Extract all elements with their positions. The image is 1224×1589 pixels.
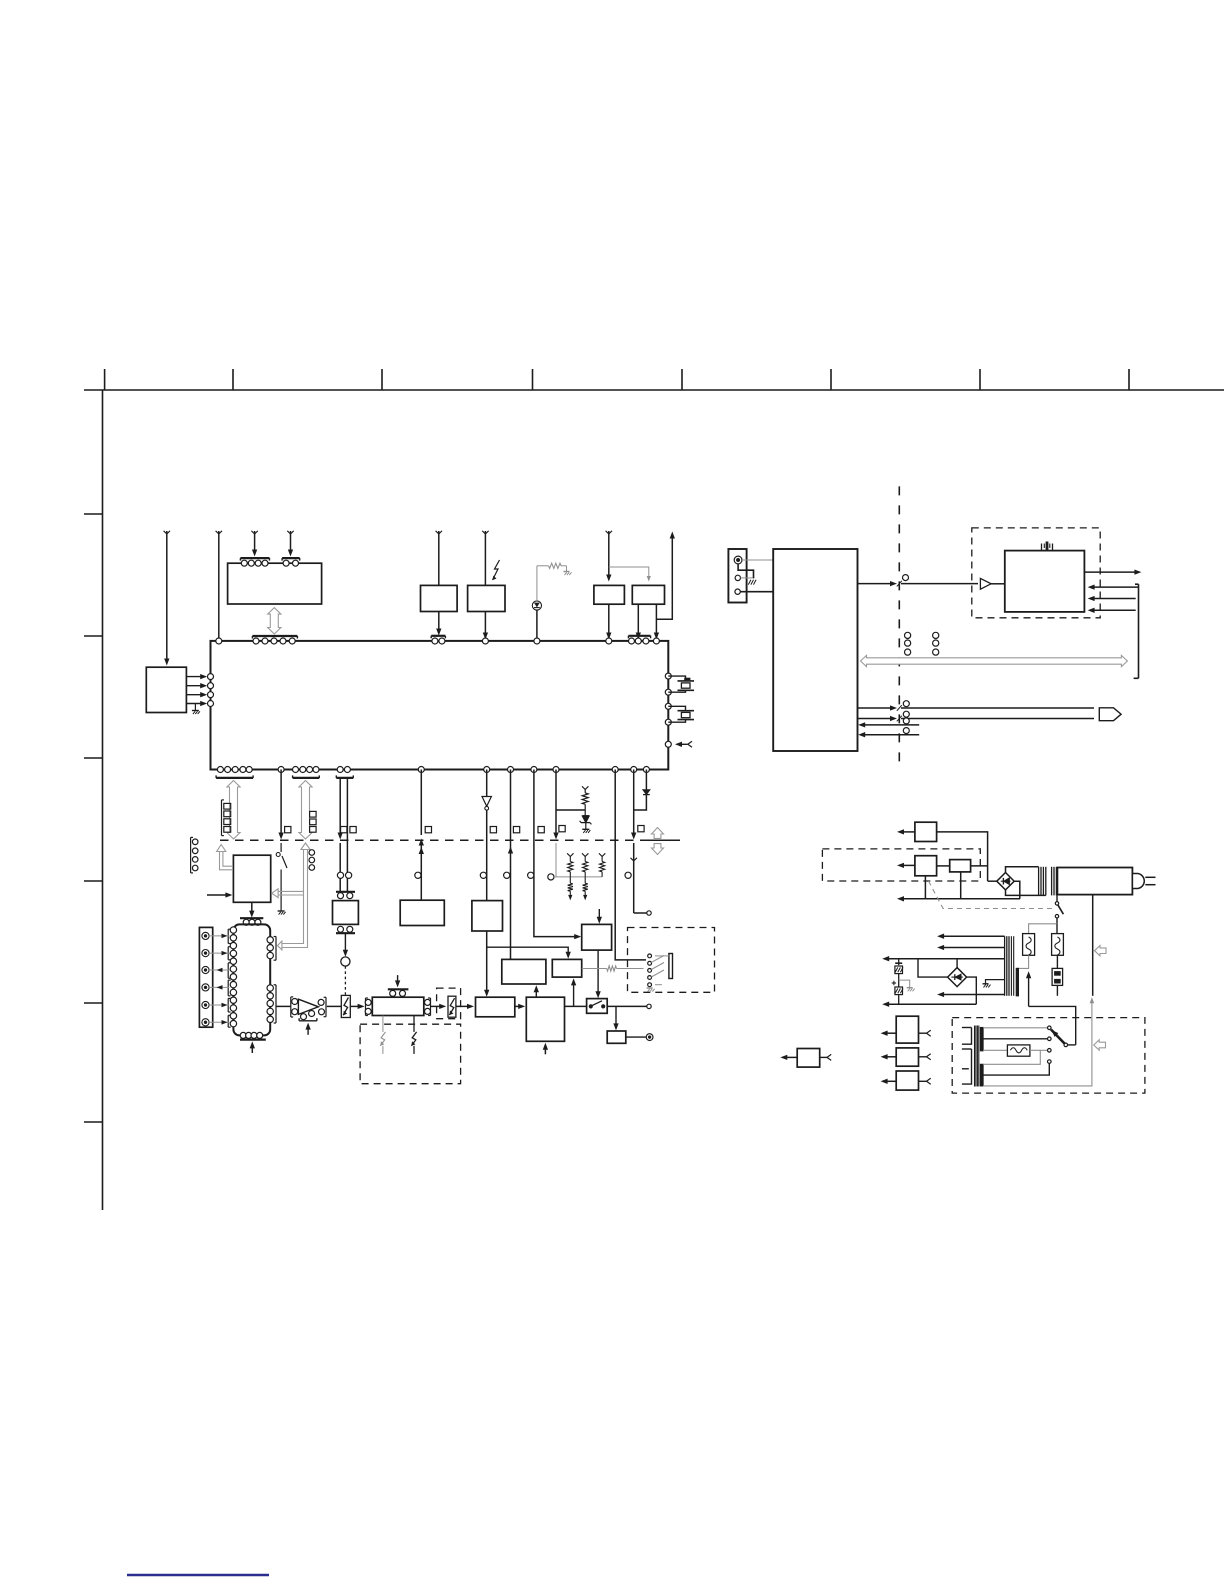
squares stack of 3 bbox=[310, 811, 317, 817]
gray wire box J to jack with resistor bbox=[582, 968, 607, 970]
wire pin x535 to box K bbox=[531, 767, 537, 773]
power switch S1 bbox=[1056, 895, 1058, 902]
resistor ladder network bbox=[567, 853, 573, 856]
arrow below L up into bottom bbox=[544, 1046, 546, 1055]
boundary open arrow up bbox=[652, 828, 664, 839]
bridge right vertex to return rail bbox=[1014, 881, 1020, 899]
block box W2 bbox=[797, 1049, 820, 1068]
gray bus arrow into box E right bbox=[278, 890, 303, 892]
pin circles under bar 1 bbox=[241, 560, 247, 566]
switch box M bbox=[587, 999, 608, 1014]
wire LED to U1 pin bbox=[536, 610, 538, 638]
connector pins hatched 6 bbox=[202, 932, 209, 939]
connector bar under reset box bbox=[431, 635, 445, 637]
audio in wires to tuner bbox=[861, 724, 919, 726]
block box V bbox=[896, 1071, 918, 1090]
BR2 left vertex wire bbox=[918, 959, 948, 977]
filter box S bbox=[950, 860, 971, 872]
T2 secondary bar bbox=[1016, 968, 1018, 995]
data bus open arrow to boundary bbox=[299, 781, 312, 840]
feedback pin circles bbox=[301, 1014, 307, 1020]
crystal X2 bbox=[668, 706, 685, 710]
key bus open arrow to boundary bbox=[227, 781, 240, 840]
ground at sensor box bbox=[194, 704, 196, 711]
gray branch to fuse A bbox=[1029, 924, 1057, 934]
pin circles U1 left edge bbox=[208, 674, 214, 680]
AC plug bbox=[1132, 874, 1144, 889]
connector bar below IC2 bbox=[240, 1038, 266, 1040]
ground LED branch bbox=[564, 571, 570, 573]
dashed ribbon box D2 bbox=[437, 988, 461, 1019]
wires R-S-rect bbox=[937, 865, 950, 867]
cap 2 with plus bbox=[892, 982, 896, 984]
wire M to line out bbox=[607, 1005, 647, 1007]
wire LED to resistor bbox=[536, 566, 538, 601]
wires sensor box to U1 left pins bbox=[186, 676, 204, 678]
wire into reset box bbox=[436, 531, 442, 534]
long gray bus double arrow bbox=[861, 655, 1128, 666]
connector bar above U1 right pin group bbox=[628, 635, 650, 637]
DSP block P bbox=[1005, 551, 1085, 612]
block box L bbox=[526, 997, 564, 1041]
arrow into box K top bbox=[598, 909, 600, 921]
left ruler border line bbox=[102, 390, 104, 1210]
square at boundary x541 bbox=[538, 827, 544, 833]
block box T bbox=[896, 1016, 918, 1043]
square at boundary x493 bbox=[490, 827, 496, 833]
square at boundary x516 bbox=[513, 827, 519, 833]
AC cord box bbox=[1057, 868, 1132, 895]
pin circles U1 bottom group 1 bbox=[217, 767, 223, 773]
dotted mechanical link bbox=[344, 966, 346, 995]
pin circles IC2 top bbox=[243, 919, 249, 925]
arrow into volume block bbox=[350, 1005, 361, 1007]
dashed jack box D3 bbox=[628, 928, 715, 993]
pin circles under bar 2 bbox=[283, 560, 289, 566]
boundary solid end segment bbox=[648, 839, 680, 841]
regulator block box B3 bbox=[594, 585, 625, 604]
fuse FA bbox=[1023, 934, 1035, 956]
wire fuse A to secondary top bbox=[1018, 955, 1028, 968]
bridge rectifier BR1 bbox=[997, 873, 1014, 890]
zener diode to ground bbox=[582, 815, 589, 817]
sys-con box E bbox=[233, 855, 270, 902]
pin circle single x281 bbox=[278, 767, 284, 773]
crystal icon on DSP bbox=[1042, 544, 1053, 551]
volume block F bbox=[372, 997, 424, 1015]
wires volume block to mech switches bbox=[382, 1016, 384, 1032]
fuse F3 in selector bbox=[1007, 1045, 1030, 1056]
flash arrow into box corner bbox=[493, 560, 500, 580]
arrow out of box R bbox=[900, 864, 915, 866]
wire into power detect box bbox=[482, 531, 488, 534]
transformer T2 primary bbox=[1004, 936, 1006, 996]
branch wire to box J top bbox=[487, 947, 569, 955]
arrow up into IC2 bottom bbox=[251, 1045, 253, 1054]
stacked circles beside bus bbox=[309, 850, 315, 856]
dashed power box D5 bbox=[822, 849, 980, 881]
top ruler tick marks bbox=[104, 369, 106, 390]
IC2 right pins group 1 bbox=[267, 937, 273, 943]
flat cable plug bbox=[1099, 708, 1121, 721]
via circle x628 bbox=[625, 872, 631, 878]
connector bar 1 on display IC bbox=[240, 557, 269, 559]
pin circles U1 top group of 5 bbox=[253, 638, 259, 644]
gray wire antenna to tuner bbox=[742, 559, 773, 561]
antenna connector pin 2 bbox=[735, 575, 740, 580]
right return vertical bbox=[1092, 895, 1094, 996]
via circle x483 bbox=[480, 872, 486, 878]
arrow out of box Q bbox=[900, 831, 915, 833]
gray wire pin 2 bbox=[741, 577, 753, 579]
left ruler tick marks bbox=[84, 513, 103, 515]
inverter triangle on wire bbox=[482, 797, 491, 807]
wire pin x615 to phones jack bbox=[612, 767, 618, 773]
selector tap 4 wires bbox=[983, 1050, 1040, 1064]
wire N to DC plug bbox=[626, 1036, 646, 1038]
dashed selector box D6 bbox=[952, 1018, 1145, 1094]
wire H to L bbox=[515, 1005, 523, 1007]
wire resistor to ground bbox=[561, 565, 567, 567]
via circle columns at boundary bbox=[905, 632, 911, 638]
wire amp to ribbon F1 bbox=[327, 1005, 342, 1007]
block box H bbox=[476, 997, 515, 1017]
bus open double arrow display IC to U1 bbox=[268, 608, 281, 634]
block box G bbox=[472, 901, 503, 931]
switch contacts and blade bbox=[589, 1005, 592, 1008]
resistor R LED series bbox=[549, 563, 561, 568]
T3 core lines bbox=[974, 1026, 976, 1087]
jack switch diagonals bbox=[651, 956, 664, 963]
wire into B3 bbox=[606, 531, 612, 534]
block box Y bbox=[400, 900, 444, 925]
power detect block box bbox=[468, 585, 505, 611]
board boundary dashed line bbox=[220, 839, 648, 841]
connector bar below group 1 bbox=[216, 777, 253, 779]
open arrow up from box E bbox=[223, 852, 233, 867]
wire from mech selector up bbox=[1028, 974, 1030, 1006]
tuner block bbox=[773, 549, 857, 751]
wire pin x556 power sense bbox=[553, 767, 559, 773]
BR2 top vertex wire bbox=[956, 959, 958, 968]
wire volume to ribbon F2 bbox=[431, 1005, 444, 1007]
wire bridge left vertex bbox=[988, 880, 997, 882]
arrow reset box to U1 bbox=[438, 612, 440, 633]
tall gray bus arrow boundary to IC2 bbox=[282, 850, 304, 944]
electrolytic cap chain bbox=[898, 959, 900, 966]
regulator box Q bbox=[915, 822, 937, 841]
antenna connector pin 3 bbox=[735, 589, 740, 594]
wires group 3 to motor block bbox=[339, 778, 341, 836]
pin circles right group bbox=[629, 638, 635, 644]
diode D x646 bbox=[643, 767, 649, 773]
wire arrow into box E left bbox=[207, 894, 229, 896]
DC plug symbol bbox=[646, 1034, 653, 1041]
wire to motor bbox=[344, 933, 346, 953]
cap midpoint gray ground bbox=[899, 980, 910, 987]
ground zener bbox=[582, 828, 589, 830]
wire fuse B to thermistor bbox=[1056, 955, 1058, 968]
board boundary vertical dashed bbox=[898, 486, 900, 767]
remote sensor box bbox=[146, 667, 186, 712]
bottom power rail bbox=[900, 898, 1020, 900]
selector return wire gray bbox=[983, 1000, 1092, 1086]
via circle x418 bbox=[415, 872, 421, 878]
tuner IF out wire bbox=[858, 583, 894, 585]
T3 primary loops bbox=[962, 1027, 972, 1029]
pin circles U1 bottom group 3 bbox=[337, 767, 343, 773]
arrow into top bar bbox=[397, 975, 399, 984]
wire pin x421 down to block Y bbox=[418, 767, 424, 773]
block box J bbox=[552, 959, 581, 977]
connector bracket with 4 squares bbox=[221, 800, 223, 836]
jack contact circles bbox=[648, 954, 652, 958]
antenna shield stub to ground bbox=[738, 564, 753, 579]
antenna connector block bbox=[728, 549, 746, 603]
tuner audio out wires to CD section bbox=[858, 707, 894, 709]
pass-through square x287 bbox=[285, 827, 291, 833]
wire box S bottom to rail bbox=[960, 872, 962, 899]
bridge bottom vertex rail bbox=[1006, 890, 1046, 896]
wire IC2 to headphone amp bbox=[276, 1005, 290, 1007]
wire x281 to hold switch bbox=[280, 770, 282, 836]
arrow B3 to U1 pin bbox=[608, 604, 610, 636]
wire pin x487 with inverter bbox=[484, 767, 490, 773]
transformer T1 windings bbox=[1038, 867, 1040, 896]
DSP output arrow bbox=[1084, 571, 1138, 573]
via circle x531 bbox=[528, 872, 534, 878]
wire pin 3 to tuner bbox=[740, 591, 773, 593]
wire supply into U1 top-left pin bbox=[216, 531, 222, 534]
boundary open arrow down bbox=[652, 844, 664, 855]
selector blade bbox=[1051, 1030, 1066, 1045]
pin circles pair bbox=[432, 638, 438, 644]
square at boundary x559 bbox=[559, 826, 565, 832]
T2 core bbox=[1010, 936, 1012, 996]
fuse FB bbox=[1052, 934, 1064, 956]
IC U1 main system LSI body bbox=[211, 641, 669, 770]
mechanical link dashed bbox=[929, 881, 1053, 909]
motor M bbox=[341, 957, 350, 966]
wire pin x634 to DC in bbox=[631, 767, 637, 773]
jack sleeve bar bbox=[669, 954, 673, 979]
pin circles U1 right edge bbox=[665, 673, 671, 679]
junction circles on motor wires bbox=[337, 872, 343, 878]
junction branch L to J bbox=[573, 981, 575, 1006]
wire test input to U1 right pin bbox=[677, 743, 688, 745]
connector bracket 4 pins left bbox=[190, 837, 192, 873]
op-amp triangle bbox=[298, 999, 318, 1014]
hold switch below boundary bbox=[280, 843, 282, 852]
wire box Q to rectifier bbox=[937, 832, 988, 881]
secondary output wires bbox=[940, 935, 1005, 937]
connector bar below group 2 bbox=[293, 777, 320, 779]
branch down to box N bbox=[615, 1006, 617, 1027]
block box K bbox=[582, 924, 612, 950]
antenna pin double circle bbox=[734, 556, 742, 564]
buffer triangle bbox=[980, 578, 991, 589]
input bracket right bbox=[1138, 584, 1140, 678]
bridge rectifier BR2 bbox=[948, 968, 967, 987]
open arrow into selector bbox=[1094, 1040, 1106, 1050]
gray node wire below boundary bbox=[555, 843, 557, 877]
square at boundary x428 bbox=[425, 827, 431, 833]
top ruler border line bbox=[84, 389, 1224, 391]
BR2 center tap ground bbox=[986, 980, 1005, 984]
pin circle x537 bbox=[534, 638, 540, 644]
squares pair at boundary x340 x350 bbox=[341, 827, 347, 833]
square at boundary x641 bbox=[638, 826, 644, 832]
open arrow into return line bbox=[1095, 946, 1107, 956]
ground jack bbox=[647, 987, 653, 989]
thermistor block bbox=[1052, 968, 1063, 985]
IC2 bottom pins bbox=[240, 1032, 246, 1038]
volume block right pins bbox=[425, 999, 431, 1005]
BR2 right vertex wire bbox=[967, 977, 977, 1004]
pin circles U1 bottom group 2 bbox=[293, 767, 299, 773]
LED D1 indicator bbox=[532, 601, 541, 610]
block box N bbox=[607, 1031, 626, 1043]
bar on top of volume block bbox=[388, 988, 409, 990]
arrow L up into box I bbox=[535, 988, 537, 997]
wire box R bottom to rail bbox=[924, 876, 926, 899]
amp left bracket pins bbox=[290, 997, 292, 1017]
pin circle x609 bbox=[606, 638, 612, 644]
wire L to switch M bbox=[565, 1005, 587, 1007]
crossing ticks on boundary bbox=[897, 581, 902, 587]
block box I bbox=[502, 959, 546, 984]
connector bar 2 on display IC bbox=[282, 557, 300, 559]
dashed DSP box D4 bbox=[972, 528, 1100, 618]
arrow box E down to IC2 bbox=[251, 902, 253, 914]
IC2 left pin brackets bbox=[227, 929, 229, 943]
wire into remote sensor box bbox=[164, 531, 170, 534]
arrow power detect to U1 pin bbox=[484, 612, 486, 637]
wire arrow into bar 2 bbox=[287, 531, 293, 534]
arrow K down to switch M bbox=[597, 950, 599, 995]
arrow G to H bbox=[486, 931, 488, 993]
connector bar above IC2 bbox=[240, 917, 263, 919]
bracket below amp with arrow bbox=[299, 1020, 317, 1022]
jack wires to sleeve bbox=[655, 955, 669, 957]
pins below block X bbox=[338, 926, 344, 932]
pin circle x485 bbox=[482, 638, 488, 644]
block box U bbox=[896, 1048, 918, 1066]
selector tap wires bbox=[983, 1027, 1047, 1029]
DSP inputs from bracket bbox=[1091, 586, 1139, 588]
motor driver block X bbox=[333, 901, 359, 925]
ribbon crossing F2 bbox=[448, 996, 456, 1017]
volume block left pins bbox=[365, 998, 367, 1016]
wire pin x511 to box I bbox=[508, 767, 514, 773]
connector bar below group 3 bbox=[336, 777, 353, 779]
via circle x507 bbox=[504, 872, 510, 878]
dashed mech box D1 bbox=[360, 1024, 461, 1084]
wire up to off page supply bbox=[656, 535, 672, 619]
connector bar above motor block bbox=[336, 891, 355, 893]
IC2 right pins group 2 bbox=[267, 985, 273, 991]
IC2 servo driver body bbox=[233, 924, 270, 1035]
display/key controller IC box bbox=[228, 563, 322, 604]
regulator block box B4 bbox=[632, 585, 664, 604]
crystal X1 bbox=[668, 676, 685, 681]
T3 secondary bars bbox=[980, 1028, 983, 1051]
wire ribbon F2 to box H bbox=[456, 1005, 472, 1007]
wire arrow into bar 1 bbox=[251, 531, 257, 534]
gray branch B3 wire to B4 bbox=[609, 567, 649, 578]
top rail bridge to transformer bbox=[1006, 867, 1039, 873]
wires connector to IC2 bbox=[209, 935, 229, 937]
front connector block bbox=[199, 927, 212, 1027]
IC2 left pin circles bbox=[230, 927, 236, 933]
amp right bracket pins bbox=[318, 999, 324, 1005]
reset block box bbox=[421, 585, 458, 611]
ribbon crossing F1 bbox=[341, 995, 350, 1017]
pin circle U1 top x219 bbox=[216, 638, 222, 644]
resistor R pull-up bbox=[582, 786, 588, 789]
arrows B4 to U1 pins bbox=[637, 604, 639, 636]
regulator box R bbox=[915, 856, 937, 876]
blue footer rule bbox=[127, 1574, 269, 1577]
connector bar 3 above U1 top pins bbox=[252, 635, 297, 637]
